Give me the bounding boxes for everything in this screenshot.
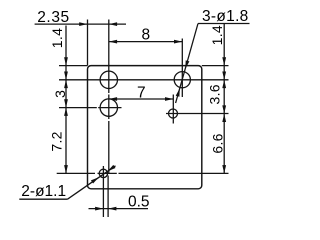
arrow left col top edge (down) — [64, 57, 68, 65]
arrow right col row1 (down) — [222, 72, 226, 80]
centerline small right hole row — [166, 113, 229, 115]
leader line 2-ø1.1 — [68, 166, 116, 199]
dimension line 0.5 (bottom) — [89, 208, 149, 210]
centerline bottom hole column — [102, 166, 104, 217]
arrow 2.35 right (outside, pointing left) — [109, 22, 117, 26]
svg-text:3: 3 — [52, 90, 68, 98]
dimension line column left — [65, 26, 67, 174]
arrow right col row1 (up) — [222, 80, 226, 88]
extension line small right hole column — [172, 95, 174, 124]
extension line body left edge (top) — [87, 20, 89, 66]
hole H4 small right circle — [169, 109, 178, 118]
arrow left col row2 (up) — [64, 108, 68, 116]
arrow 7 left — [109, 97, 117, 101]
arrow 7 right — [165, 97, 173, 101]
hole H5 small bottom circle — [99, 169, 107, 177]
arrow left col row2 (down) — [64, 99, 68, 107]
centerline bottom hole row — [57, 172, 95, 174]
arrow left col row1 (down) — [64, 72, 68, 80]
svg-text:3.6: 3.6 — [206, 84, 222, 104]
arrow 8 right — [174, 40, 182, 44]
body outline (relay bottom view) — [88, 66, 202, 189]
svg-text:2.35: 2.35 — [37, 9, 70, 26]
arrow 8 left — [109, 40, 117, 44]
svg-text:6.6: 6.6 — [209, 133, 225, 153]
centerline row 1 — [59, 79, 229, 81]
arrow right col small row (up) — [222, 114, 226, 122]
extension line top-right hole column — [181, 39, 183, 98]
svg-text:2-ø1.1: 2-ø1.1 — [21, 183, 66, 200]
svg-text:1.4: 1.4 — [209, 25, 225, 45]
arrow leader 1.8 upper (pointing down-left into hole) — [185, 60, 189, 69]
extension line top edge left — [59, 65, 88, 67]
arrow 0.5 right (outside, pointing left) — [108, 207, 116, 211]
dimension line 2.35 (top) — [35, 23, 126, 25]
arrow right col bottom row (down) — [222, 165, 226, 173]
leader line 3-ø1.8 — [176, 24, 198, 104]
centerline hole column left — [108, 20, 110, 94]
extension line top edge right — [202, 65, 229, 67]
arrow left col row1 (up) — [64, 80, 68, 88]
svg-text:1.4: 1.4 — [49, 28, 65, 48]
arrow leader 1.8 lower (pointing up-right into hole) — [176, 88, 180, 97]
arrow leader 1.1 upper (pointing down-left into hole) — [108, 165, 116, 171]
svg-text:7: 7 — [137, 85, 146, 102]
hole H1 top-left circle — [100, 71, 117, 88]
arrow right col small row (down) — [222, 105, 226, 113]
underline 2-ø1.1 — [19, 198, 67, 200]
arrow right col top edge (down) — [222, 57, 226, 65]
centerline row 2 — [59, 107, 97, 109]
arrow left col bottom row (down) — [64, 165, 68, 173]
hole H2 mid-left circle — [100, 99, 117, 116]
arrow leader 1.1 lower (pointing up-right into hole) — [91, 177, 99, 183]
underline 3-ø1.8 — [198, 23, 250, 25]
svg-text:7.2: 7.2 — [49, 131, 65, 151]
hole H3 top-right circle — [174, 72, 190, 88]
dimension line column right — [223, 24, 225, 173]
dimension line 8 (top) — [109, 41, 183, 43]
svg-text:3-ø1.8: 3-ø1.8 — [202, 8, 249, 25]
dimension line 7 — [109, 98, 174, 100]
svg-text:0.5: 0.5 — [128, 193, 150, 210]
arrow 0.5 left (outside, pointing right) — [95, 207, 103, 211]
arrow 2.35 left (outside, pointing right) — [79, 22, 87, 26]
svg-text:8: 8 — [142, 26, 151, 43]
